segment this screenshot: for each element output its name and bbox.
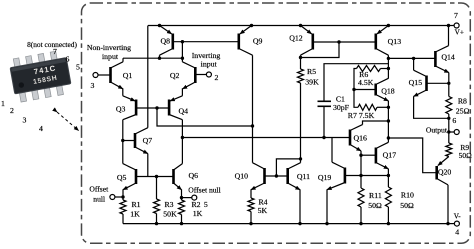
transistor Q7 <box>135 128 152 154</box>
terminal pin 2 inverting input <box>206 72 218 82</box>
wire Q10-Q11 base link <box>265 174 288 177</box>
svg-text:Q5: Q5 <box>117 173 127 182</box>
chip pin label 5 <box>76 62 80 71</box>
wire Q14 emitter to R8 <box>447 73 450 97</box>
wire Q9 collector down to Q10 collector <box>251 55 254 163</box>
terminal pin 7 V+ <box>454 11 464 37</box>
wire Q7 collector to V+ rail <box>147 26 149 128</box>
wire Q15 base to Q14 emitter <box>427 82 449 84</box>
wire Q11 collector up to R5 <box>300 159 302 163</box>
svg-text:50K: 50K <box>163 209 177 218</box>
resistor R11 50Ω <box>358 188 382 210</box>
svg-text:6: 6 <box>66 54 70 63</box>
svg-text:2: 2 <box>214 73 218 82</box>
IC chip photo (741C SOIC-8 package)', drawn <box>9 50 73 103</box>
wire Q17 emitter down to R10 <box>387 169 390 187</box>
svg-text:Q13: Q13 <box>388 37 402 46</box>
wire Q3 collector down to Q5 collector <box>121 120 124 164</box>
svg-text:Offset: Offset <box>89 184 109 193</box>
svg-text:C1: C1 <box>336 94 345 103</box>
wire C1 bottom to Q16 base line <box>323 106 325 137</box>
wire Q5 emitter down <box>121 189 124 200</box>
svg-text:Q15: Q15 <box>409 78 423 87</box>
dashed correspondence arrow between chip and schematic <box>57 112 79 131</box>
svg-text:Q6: Q6 <box>189 171 199 180</box>
chip pin label 4 <box>39 124 43 133</box>
wire Q2 emitter to Q4 emitter <box>181 88 183 96</box>
transistor Q1 <box>111 58 133 89</box>
transistor Q4 <box>169 96 188 120</box>
wire Q5/Q6 base node down to R3 <box>156 177 158 200</box>
label non-inverting input <box>87 43 131 61</box>
svg-text:V+: V+ <box>455 29 464 37</box>
wire Q5-Q6 base link <box>136 175 174 178</box>
transistor Q3 <box>116 96 136 120</box>
resistor R4 5K <box>248 198 268 216</box>
svg-text:R7 7.5K: R7 7.5K <box>348 111 375 120</box>
wire Q7 base to Q3 collector line <box>123 140 135 142</box>
resistor R7 7.5K <box>348 104 377 120</box>
wire Q11 emitter to V- rail <box>298 189 301 225</box>
transistor Q2 <box>170 58 195 89</box>
wire C1 top to Q13 collector node <box>324 64 388 102</box>
transistor Q15 <box>409 70 427 96</box>
terminal offset null right pin 5 <box>188 185 221 200</box>
svg-text:Output: Output <box>426 125 448 134</box>
wire Q17 base to Q16 emitter <box>361 154 376 156</box>
svg-text:Inverting: Inverting <box>192 51 221 60</box>
svg-text:Q14: Q14 <box>441 52 455 61</box>
svg-text:5: 5 <box>76 62 80 71</box>
wire output node to pin 6 <box>449 131 454 133</box>
svg-text:V-: V- <box>454 212 462 220</box>
transistor Q10 <box>235 163 265 190</box>
wire R7 right to node <box>377 106 388 108</box>
wire V+ rail to pin 7 terminal <box>447 24 454 27</box>
transistor Q8 <box>158 24 173 58</box>
wire Q8-Q9 base link <box>173 40 239 43</box>
wire Q3-Q4 base link <box>136 106 169 109</box>
wire Q8 base tie-down to collector bus <box>181 42 183 59</box>
svg-text:Q20: Q20 <box>438 168 452 177</box>
terminal pin 6 output <box>426 116 459 135</box>
wire Q13 collector to Q14 base <box>388 57 435 60</box>
wire Q19 base to R11/R10 tops <box>345 175 389 177</box>
wire R3 to V- rail <box>155 214 158 226</box>
resistor R1 1K <box>120 200 141 218</box>
svg-text:Q18: Q18 <box>381 87 395 96</box>
svg-text:4: 4 <box>455 228 459 237</box>
svg-text:R5: R5 <box>307 67 316 76</box>
svg-text:Q8: Q8 <box>161 37 171 46</box>
transistor Q12 <box>289 24 313 55</box>
transistor Q5 <box>117 164 136 190</box>
svg-text:4: 4 <box>39 124 43 133</box>
wire Q11 base-collector tie <box>276 157 302 176</box>
svg-text:null: null <box>93 195 105 204</box>
svg-text:Non-inverting: Non-inverting <box>87 43 131 52</box>
resistor R6 4.5K <box>357 66 381 87</box>
svg-text:25Ω: 25Ω <box>456 106 470 115</box>
wire R6 left loop down to R7 left <box>352 69 358 108</box>
svg-text:Q10: Q10 <box>235 172 249 181</box>
svg-text:R11: R11 <box>369 191 382 200</box>
resistor R8 25Ω <box>446 96 470 115</box>
transistor Q11 <box>288 163 310 190</box>
wire second-stage output node vertical <box>387 101 390 142</box>
svg-text:Q16: Q16 <box>353 133 367 142</box>
wire Q16 collector to node <box>363 121 389 125</box>
svg-text:Q12: Q12 <box>289 33 303 42</box>
svg-text:39K: 39K <box>305 78 319 87</box>
dashed boundary box of IC internals <box>82 3 471 243</box>
wire offset null right to Q6 emitter <box>182 197 192 199</box>
svg-text:Q7: Q7 <box>143 136 153 145</box>
wire Q12-Q13 base link <box>313 40 376 43</box>
wire R2 to V- rail <box>180 215 183 226</box>
chip pin label 2 <box>10 106 14 115</box>
svg-text:R1: R1 <box>131 200 140 209</box>
svg-text:3: 3 <box>91 81 95 90</box>
wire Q19 collector up to Q16 base line <box>331 138 333 163</box>
svg-text:R10: R10 <box>401 190 414 199</box>
wire V- rail to pin 4 terminal <box>446 222 454 225</box>
wire Q18 base to R6/R7 midpoint <box>354 89 375 91</box>
svg-text:50Ω: 50Ω <box>368 201 382 210</box>
wire first-stage output to Q16 base (C1 bottom line) <box>182 136 350 139</box>
transistor Q6 <box>174 164 199 190</box>
wire Q20 base to second-stage output node <box>388 138 436 173</box>
wire Q12 base-collector tie <box>301 42 340 58</box>
terminal offset null left <box>89 184 115 203</box>
chip pin label 8 note <box>27 40 77 49</box>
svg-text:50Ω: 50Ω <box>459 151 473 160</box>
svg-text:R3: R3 <box>164 200 173 209</box>
svg-text:4.5K: 4.5K <box>358 78 374 87</box>
transistor Q20 <box>437 157 452 185</box>
svg-text:1K: 1K <box>193 209 203 218</box>
wire V+ top rail <box>148 25 449 27</box>
resistor R2 1K <box>179 200 208 218</box>
chip pin label 6 <box>66 54 70 63</box>
svg-text:7: 7 <box>454 11 458 20</box>
transistor Q16 <box>350 125 367 151</box>
transistor Q9 <box>239 24 263 55</box>
svg-text:R2: R2 <box>191 200 200 209</box>
wire Q15 emitter down to output node <box>414 96 449 118</box>
terminal pin 4 V- <box>454 212 462 236</box>
svg-text:Q11: Q11 <box>297 172 310 181</box>
svg-text:1K: 1K <box>130 209 140 218</box>
wire Q7 emitter down to Q5/Q6 base line <box>147 154 149 177</box>
transistor Q17 <box>376 142 396 169</box>
wire Q6 emitter down <box>180 189 183 200</box>
terminal pin 3 non-inverting input <box>91 73 98 90</box>
chip pin label 1 <box>1 99 5 108</box>
svg-text:Q4: Q4 <box>179 106 189 115</box>
svg-text:Q1: Q1 <box>123 71 133 80</box>
capacitor C1 30pF <box>318 94 350 112</box>
wire V- bottom rail <box>123 223 448 225</box>
wire Q13 collector node <box>387 55 390 78</box>
wire R11 to V- rail <box>359 207 362 225</box>
svg-text:5: 5 <box>204 200 208 209</box>
wire R1 to V- rail <box>122 214 124 224</box>
svg-text:Q17: Q17 <box>383 150 397 159</box>
chip pin label 7 <box>53 47 57 56</box>
svg-text:Q3: Q3 <box>116 105 126 114</box>
wire Q1 emitter to Q3 emitter <box>122 88 124 96</box>
wire Q19 emitter to V- rail <box>325 189 328 225</box>
resistor R9 50Ω <box>446 143 472 160</box>
wire Q2 base to pin2 <box>195 74 206 76</box>
svg-text:R8: R8 <box>458 96 467 105</box>
svg-text:5K: 5K <box>258 206 268 215</box>
transistor Q14 <box>435 46 455 73</box>
wire R6 right to node <box>381 68 389 70</box>
svg-text:input: input <box>201 59 218 68</box>
wire Q1/Q2 collectors bus <box>123 57 184 60</box>
svg-text:7: 7 <box>53 47 57 56</box>
svg-text:6: 6 <box>452 116 456 125</box>
wire Q3/Q4 bases down and right to Q9/Q10 collectors <box>157 108 253 126</box>
wire Q20 collector to V- rail <box>447 185 449 224</box>
svg-text:input: input <box>102 52 119 61</box>
transistor Q19 <box>318 162 345 190</box>
wire R4 to V- rail <box>249 212 252 226</box>
svg-text:2: 2 <box>10 106 14 115</box>
resistor R3 50K <box>154 199 178 218</box>
wire R10 to V- rail <box>387 207 390 225</box>
svg-text:Q9: Q9 <box>253 37 263 46</box>
wire Q4 collector down to first-stage output node <box>181 120 184 164</box>
svg-text:3: 3 <box>23 115 27 124</box>
wire Q16 emitter down to R11 <box>359 151 362 188</box>
wire R8 to output node <box>447 114 450 143</box>
wire Q12 collector to R5 top <box>299 55 302 69</box>
svg-text:Q19: Q19 <box>318 173 332 182</box>
transistor Q13 <box>376 24 401 55</box>
wire R5 bottom to Q11 collector node <box>300 83 302 159</box>
svg-text:Offset null: Offset null <box>188 185 221 194</box>
resistor R10 50Ω <box>385 187 414 210</box>
wire Q14 collector to V+ rail <box>448 26 450 46</box>
resistor R5 39K <box>298 67 320 87</box>
wire Q15 collector up to Q14 base line <box>413 58 415 70</box>
svg-text:50Ω: 50Ω <box>400 201 414 210</box>
svg-text:1: 1 <box>1 99 5 108</box>
chip pin label 3 <box>23 115 27 124</box>
label inverting input <box>192 51 221 69</box>
svg-text:Q2: Q2 <box>170 71 180 80</box>
wire offset null left to Q5 emitter <box>115 196 123 198</box>
wire pin3 to Q1 base <box>98 74 111 76</box>
transistor Q18 <box>376 78 395 101</box>
wire Q10 emitter to R4 <box>250 189 252 198</box>
